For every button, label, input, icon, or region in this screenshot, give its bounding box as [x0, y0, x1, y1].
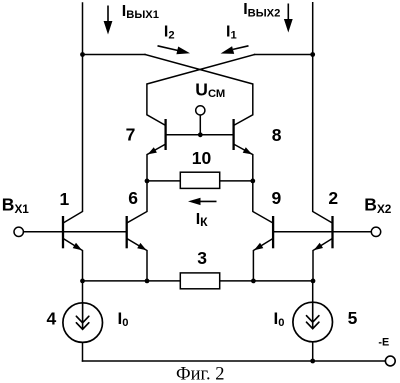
arrow I2 — [158, 46, 191, 55]
input terminal Bx2 — [371, 227, 380, 236]
wire bottom rail to -E terminal — [83, 360, 386, 362]
svg-text:2: 2 — [328, 188, 338, 208]
node R10 right junction — [250, 179, 255, 184]
wire current source 5 bottom lead — [312, 342, 314, 361]
wire Q2 emitter — [313, 239, 332, 281]
node bottom rail CS5 junction — [310, 359, 315, 364]
wire resistor10 rail right — [220, 180, 253, 182]
transistor Q2 bar — [331, 216, 333, 248]
wire Q9 emitter — [253, 239, 272, 281]
wire right rail (Q2 collector to top-right node) — [313, 3, 332, 223]
node top-left junction — [80, 52, 85, 57]
svg-text:8: 8 — [272, 125, 282, 145]
current source I5 circle — [293, 302, 333, 342]
svg-text:1: 1 — [60, 189, 70, 209]
wire lower rail left of R3 — [83, 280, 181, 282]
emitter arrow Q1 — [73, 243, 82, 250]
wire Q1 emitter — [64, 239, 83, 281]
arrow Ik — [188, 198, 217, 205]
resistor R10 — [180, 172, 219, 188]
current source I4 arrow line — [82, 303, 84, 329]
transistor Q1 bar — [62, 216, 64, 248]
svg-text:9: 9 — [272, 188, 282, 208]
node lower rail Q1 junction — [80, 279, 85, 284]
node R10 left junction — [145, 179, 150, 184]
node lower rail Q9 junction — [251, 279, 256, 284]
current source I4 chevrons — [76, 316, 88, 329]
svg-text:4: 4 — [47, 309, 57, 329]
svg-text:3: 3 — [197, 248, 207, 268]
wire Ucm stem — [199, 115, 201, 135]
current source I5 chevrons — [307, 316, 319, 329]
wire Q6 emitter — [128, 239, 147, 281]
wire Q7 emitter — [147, 145, 165, 181]
wire current source 5 top lead — [312, 281, 314, 329]
arrow Ivyh2 — [284, 4, 293, 33]
transistor Q8 bar — [232, 119, 234, 150]
arrow I1 — [221, 46, 249, 54]
wire current source 4 bottom lead — [82, 343, 84, 362]
wire cross-coupling diagonal to Q8 collector — [145, 55, 253, 125]
terminal -E — [385, 356, 395, 366]
svg-text:6: 6 — [128, 188, 138, 208]
wire resistor10 rail left — [147, 180, 180, 182]
transistor Q6 bar — [126, 216, 128, 248]
svg-text:10: 10 — [192, 148, 212, 168]
wire cross-coupling diagonal to Q7 collector — [147, 55, 255, 125]
svg-text:7: 7 — [126, 124, 136, 144]
wire current source 4 top lead — [82, 281, 84, 330]
node lower rail Q6 junction — [145, 279, 150, 284]
emitter arrow Q7 — [148, 147, 157, 154]
current source I4 circle — [63, 303, 103, 343]
wire input left to bases of Q1,Q6 — [23, 231, 126, 233]
wire left rail (Q1 collector to top-left node) — [64, 3, 83, 223]
emitter arrow Q9 — [254, 243, 263, 250]
emitter arrow Q8 — [243, 147, 252, 154]
wire Q9 collector — [253, 181, 272, 223]
emitter arrow Q2 — [314, 243, 323, 250]
current source I5 arrow line — [312, 302, 314, 328]
arrow Ivyh1 — [104, 6, 113, 35]
svg-text:-Е: -Е — [378, 337, 389, 349]
resistor R3 — [180, 273, 219, 289]
node lower rail Q2 junction — [311, 279, 316, 284]
node top-right junction — [310, 52, 315, 57]
svg-text:5: 5 — [348, 308, 358, 328]
transistor Q9 bar — [272, 216, 274, 248]
node Ucm base junction — [198, 132, 203, 137]
wire Q6 collector — [128, 181, 147, 223]
wire Q8 emitter — [235, 145, 253, 181]
wire top-left horizontal — [83, 54, 146, 56]
transistor Q7 base wire to Q8 — [166, 134, 234, 136]
wire top-right horizontal — [255, 54, 313, 56]
wire lower rail right of R3 — [220, 280, 313, 282]
svg-text:Фиг. 2: Фиг. 2 — [176, 365, 225, 383]
wire input right to bases of Q9,Q2 — [273, 231, 371, 233]
input terminal Bx1 — [14, 227, 23, 236]
emitter arrow Q6 — [137, 243, 146, 250]
transistor Q7 bar — [164, 119, 166, 150]
Ucm terminal circle — [196, 106, 205, 115]
